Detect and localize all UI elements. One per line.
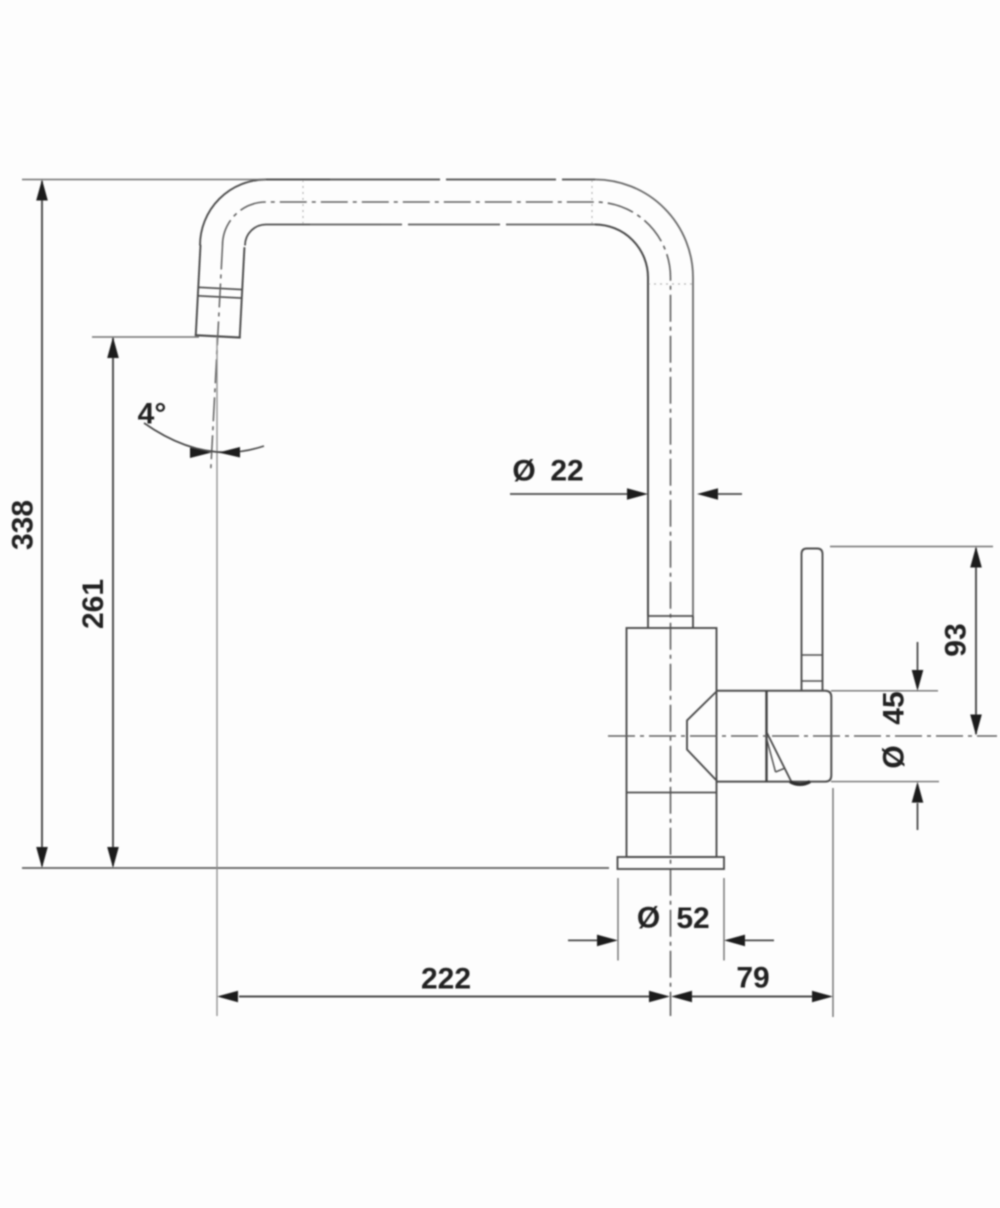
svg-text:52: 52 xyxy=(676,902,709,935)
handle axis centerline xyxy=(608,735,997,737)
dimension diam22 lines xyxy=(510,493,627,495)
extension lines diam52 xyxy=(617,878,619,961)
spout outlet (tilted 4 deg) xyxy=(195,245,246,338)
svg-text:79: 79 xyxy=(736,962,769,995)
construction tick left tangent xyxy=(302,180,304,226)
cartridge bottom dark arc xyxy=(790,782,810,785)
handle lever xyxy=(802,549,823,692)
tube centerline dash-dot xyxy=(223,202,671,1016)
dimension 93 line xyxy=(975,548,977,734)
angle 4 deg reference vertical line xyxy=(216,337,218,1016)
tube collar joint line xyxy=(648,615,693,617)
dimension 338 line xyxy=(41,181,43,866)
dimension 222 line xyxy=(239,996,650,998)
svg-text:338: 338 xyxy=(6,500,39,550)
handle cartridge xyxy=(717,691,831,782)
body joint line xyxy=(627,792,717,794)
deck baseline xyxy=(22,867,609,869)
lever joint lines xyxy=(802,654,823,656)
svg-text:22: 22 xyxy=(550,455,583,488)
angle 4 deg arc xyxy=(144,423,264,452)
extension line lever top (93) xyxy=(830,546,993,548)
spout tube inner edge xyxy=(245,225,310,246)
aerator joint lines xyxy=(198,287,242,289)
svg-text:Ø: Ø xyxy=(512,455,535,488)
dimension diam45 line top xyxy=(917,642,919,672)
svg-text:Ø: Ø xyxy=(637,902,660,935)
cartridge left seam xyxy=(765,691,767,782)
svg-text:222: 222 xyxy=(421,963,471,996)
dimension diam52 line left xyxy=(568,939,598,941)
cartridge internal diagonal xyxy=(767,732,792,781)
dimension 79 line xyxy=(692,996,812,998)
faucet body xyxy=(627,628,717,857)
construction tick right tangent xyxy=(591,180,593,226)
extension lines diam45 xyxy=(831,690,938,692)
base flange xyxy=(618,857,725,869)
dimension 261 line xyxy=(112,338,114,866)
angle arrows xyxy=(190,448,212,459)
cone connector to handle xyxy=(687,691,717,781)
svg-text:93: 93 xyxy=(940,623,973,656)
spout tube outer edge (top) xyxy=(200,180,330,246)
svg-text:Ø: Ø xyxy=(878,745,911,768)
svg-text:261: 261 xyxy=(77,579,110,629)
extension line spout tip (261) xyxy=(92,336,199,338)
dimension diam52 line right xyxy=(745,939,774,941)
dimension diam45 line bottom xyxy=(917,803,919,830)
svg-text:45: 45 xyxy=(878,691,911,724)
svg-text:4°: 4° xyxy=(138,398,167,431)
construction tick vertical tube tangent xyxy=(648,283,693,285)
top extension line (338) xyxy=(22,179,266,181)
extension line right (79) xyxy=(832,788,834,1017)
spout axis centerline tilted 4 deg xyxy=(211,246,223,474)
